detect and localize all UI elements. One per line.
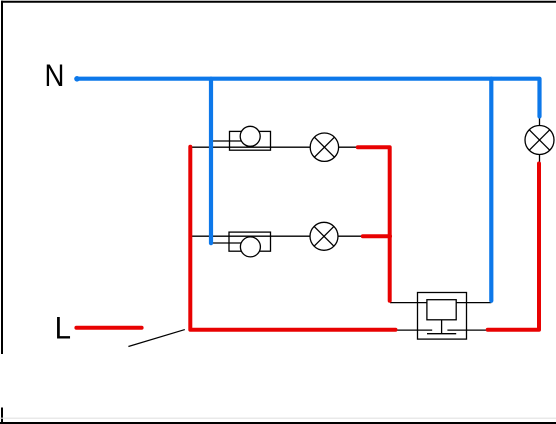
switch contact blade (open switch on L): [128, 330, 184, 347]
relay K1: contact through-line left: [397, 329, 433, 331]
wire: N bus (blue) with right-hand drop to lamp E3: [77, 79, 540, 117]
lamp E2: X stroke 2: [314, 226, 334, 246]
relay K1: coil rectangle: [427, 300, 456, 320]
wire: L feed stub (red): [76, 326, 141, 330]
relay K1: contact through-line right: [447, 329, 488, 331]
wire: N branch riser 2 (blue, to relay coil): [489, 79, 493, 301]
frame top border: [1, 1, 556, 3]
lamp E3: X stroke 1: [529, 130, 549, 150]
frame left border lower: [1, 408, 3, 424]
wire: row1 lamp E1 right lead: [337, 146, 358, 148]
lamp E3 (right): top lead (to N): [539, 117, 541, 126]
pushbutton S2 (row2): body rectangle: [229, 232, 271, 251]
lamp E3: X stroke 2: [529, 130, 549, 150]
wire: relay contact to lamp E3 (red): [488, 164, 539, 330]
frame left border upper: [1, 1, 3, 354]
wire: N branch riser 1 (blue, to pushbuttons): [209, 79, 213, 244]
lamp E1: X stroke 2: [314, 137, 334, 157]
lamp E1: X stroke 1: [314, 137, 334, 157]
wire: row2 red stub into drop: [363, 234, 390, 238]
lamp E3: bottom lead (to L return): [539, 154, 541, 163]
relay K1: coil lead left (black, from L riser): [390, 302, 427, 304]
wire: L riser + bottom run (red) from switch to relay contact: [190, 147, 395, 330]
lamp E2 (row2): circle: [310, 222, 338, 250]
wire: switched live drop (red) row1 to relay coil: [358, 147, 390, 301]
pushbutton S2 (row2): button circle: [240, 237, 260, 257]
wire: N bus start cap dot: [74, 76, 80, 82]
lamp E3: circle: [525, 126, 554, 155]
relay K1: actuator link: [441, 320, 443, 334]
pushbutton S1 (row1): body rectangle: [230, 131, 271, 150]
lamp E1 (row1): circle: [310, 133, 338, 161]
relay K1: outer case rectangle: [418, 293, 467, 340]
pushbutton S1 (row1): button circle: [240, 126, 260, 146]
pushbutton S2 (row2): terminal lead from N branch: [210, 242, 243, 244]
relay K1: bridge contact bar: [427, 333, 456, 335]
wire: row1 conductor (black) from red riser to lamp E1: [190, 146, 311, 148]
svg-text:L: L: [55, 310, 71, 345]
wire: row2 conductor (black) from red riser to lamp E2: [190, 235, 311, 237]
lamp E2: X stroke 1: [314, 226, 334, 246]
pushbutton S1 (row1): terminal lead from N branch: [210, 140, 243, 142]
relay K1: coil lead right (black, to N branch): [456, 302, 491, 304]
frame bottom border: [0, 422, 556, 424]
svg-text:N: N: [45, 58, 65, 93]
wire: row2 lamp E2 right lead: [337, 235, 363, 237]
frame faint line above bottom: [0, 417, 556, 419]
